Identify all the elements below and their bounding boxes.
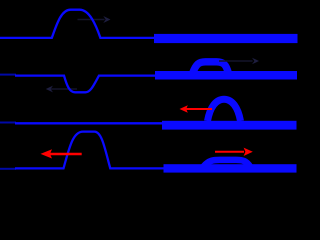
arrow: row 2 reflected-pulse arrow (dark, left) xyxy=(46,86,77,93)
arrow: row 4 reflected-pulse arrow (red, right) xyxy=(215,148,253,156)
arrow: row 2 transmitted-pulse arrow (dark, right) xyxy=(219,58,259,65)
wire: row 2 light string with reflected inverted pulse xyxy=(15,76,156,93)
wire: row 3 incident pulse on heavy string xyxy=(208,99,241,121)
wire: row 2 heavy string (thick bar) xyxy=(155,71,297,80)
wire: row 4 heavy string (thick bar) xyxy=(164,164,297,172)
wire: row 3 heavy string (thick bar) xyxy=(162,121,297,130)
wire: row 2 light string left end segment (darker) xyxy=(0,74,16,76)
arrow: row 3 velocity arrow (red, left) xyxy=(180,105,213,113)
wire: row 4 light string with transmitted pulse xyxy=(15,132,164,169)
wire: row 4 reflected bump on heavy string xyxy=(204,160,251,167)
wire: row 3 light string xyxy=(15,122,163,124)
arrow: row 1 velocity arrow (dark, right) xyxy=(78,16,111,23)
wire: row 1 light string with incident pulse xyxy=(0,10,155,38)
arrow: row 4 transmitted-pulse arrow (red, left) xyxy=(41,149,82,158)
wire: row 2 transmitted bump on heavy string xyxy=(193,62,229,74)
wire: row 4 light string left end segment (darker) xyxy=(0,168,16,170)
wire: row 1 heavy string (thick bar) xyxy=(154,34,298,43)
wire: row 3 light string left end segment (darker) xyxy=(0,122,16,124)
